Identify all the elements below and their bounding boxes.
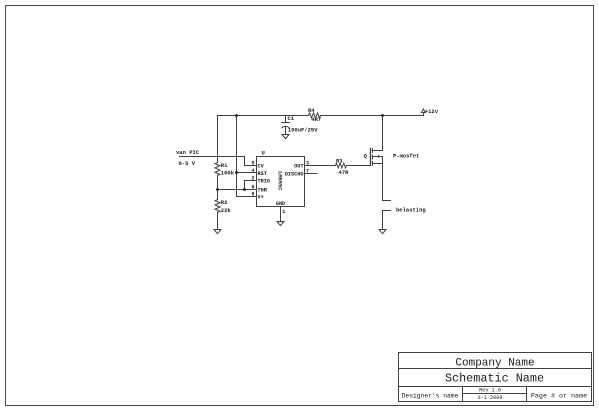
node: junction dot rail / V+ branch <box>235 114 238 117</box>
svg-text:DISCHG: DISCHG <box>285 171 304 177</box>
power +12v supply arrow <box>423 112 425 115</box>
title block vertical divider right <box>526 387 528 402</box>
svg-text:CV: CV <box>258 163 265 169</box>
svg-text:4: 4 <box>251 168 254 174</box>
wire: +12V rail (right segment from R4 to supply arrow) <box>321 115 424 117</box>
svg-text:P-mosfet: P-mosfet <box>393 153 419 160</box>
svg-text:100k: 100k <box>221 170 235 177</box>
svg-text:3: 3 <box>306 160 309 166</box>
svg-text:LM555C: LM555C <box>277 171 283 191</box>
svg-text:47R: 47R <box>339 169 350 176</box>
svg-text:22k: 22k <box>221 207 232 214</box>
svg-text:+12v: +12v <box>425 108 439 115</box>
resistor R2 <box>215 200 220 213</box>
wire: RST tee to pin 4 <box>237 172 257 174</box>
svg-text:THR: THR <box>258 187 268 193</box>
wire: TRIG tie to pin 2 <box>245 181 257 190</box>
title block outer box <box>399 353 592 402</box>
svg-text:Company Name: Company Name <box>455 357 534 369</box>
wire: R1 bottom to junction <box>217 176 219 200</box>
svg-text:GND: GND <box>276 201 285 207</box>
resistor R3 <box>336 163 347 168</box>
svg-text:0-5 V: 0-5 V <box>179 160 196 167</box>
svg-text:R4: R4 <box>308 107 315 114</box>
node: junction dot rail / mosfet source <box>381 114 384 117</box>
svg-text:8: 8 <box>251 192 254 198</box>
svg-text:belasting: belasting <box>396 207 426 214</box>
wire: R3 to mosfet gate <box>347 165 371 167</box>
svg-text:V+: V+ <box>258 195 264 201</box>
node: junction dot RST tee <box>235 171 238 174</box>
title block divider under schematic row <box>399 386 592 388</box>
wire: mosfet source to rail <box>382 116 384 151</box>
wire: DISCHG pin 7 stub <box>305 173 318 175</box>
wire: GND pin 1 stub <box>280 207 282 222</box>
resistor R4 <box>309 113 321 118</box>
svg-text:OUT: OUT <box>294 163 303 169</box>
wire: R1 branch from rail <box>217 116 219 163</box>
svg-text:TRIG: TRIG <box>258 179 270 185</box>
ground below IC pin 1 <box>277 222 284 226</box>
svg-text:5: 5 <box>251 160 254 166</box>
svg-text:Designer's name: Designer's name <box>402 392 459 399</box>
ground below R2 <box>214 230 221 234</box>
resistor R1 <box>215 163 220 176</box>
IC U 555 timer body <box>257 157 305 207</box>
svg-text:2: 2 <box>251 176 254 182</box>
svg-text:Q: Q <box>364 153 368 160</box>
svg-text:3-1-2008: 3-1-2008 <box>478 395 503 401</box>
node: junction dot TRIG/THR tie <box>243 188 246 191</box>
svg-text:C1: C1 <box>288 115 295 122</box>
svg-text:1: 1 <box>282 209 285 215</box>
svg-text:7: 7 <box>306 168 309 174</box>
svg-text:R3: R3 <box>336 157 343 164</box>
svg-text:Schematic Name: Schematic Name <box>445 371 544 385</box>
svg-text:RST: RST <box>258 171 267 177</box>
svg-text:Page # or name: Page # or name <box>531 392 587 400</box>
title block vertical divider left <box>462 387 464 402</box>
ground below C1 <box>282 135 289 139</box>
wire: mosfet drain down to load stub <box>383 164 391 201</box>
svg-text:4R7: 4R7 <box>311 116 321 123</box>
svg-text:100uF/25V: 100uF/25V <box>288 126 318 133</box>
wire: OUT pin 3 to R3 <box>305 165 336 167</box>
title block rev/date divider <box>463 393 527 395</box>
svg-text:6: 6 <box>251 184 254 190</box>
wire: belasting lower stub to ground <box>383 211 391 230</box>
svg-text:R1: R1 <box>221 162 228 169</box>
wire: +12V top rail (left segment to R4) <box>218 115 309 117</box>
svg-text:R2: R2 <box>221 199 228 206</box>
ground below belasting <box>379 230 386 234</box>
wire: van PIC input to CV pin 5 <box>180 157 257 166</box>
node: junction dot R1/R2/THR <box>216 188 219 191</box>
svg-text:U: U <box>262 149 265 156</box>
wire: R2 bottom to ground <box>217 213 219 230</box>
title block divider under company row <box>399 368 592 370</box>
capacitor C1 <box>285 116 287 123</box>
wire: V+ / RST branch from rail to pin 8 <box>237 116 257 197</box>
transistor Q: P-mosfet <box>371 149 383 166</box>
svg-text:van PIC: van PIC <box>176 149 200 156</box>
wire: THR node to pin 6 <box>218 189 257 191</box>
svg-text:Rev 1.0: Rev 1.0 <box>479 388 501 394</box>
